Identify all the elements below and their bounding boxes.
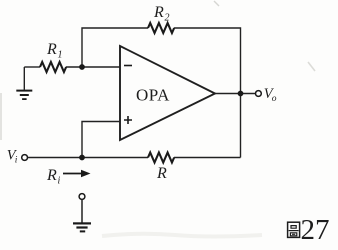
wire: Vi to R (bottom rail) bbox=[28, 157, 149, 159]
wire: top feedback rail left segment bbox=[82, 28, 148, 67]
svg-text:i: i bbox=[15, 156, 18, 166]
wire: top feedback rail right segment + right vertical bbox=[174, 28, 241, 158]
svg-text:27: 27 bbox=[301, 214, 330, 246]
svg-text:R: R bbox=[156, 165, 167, 182]
svg-text:2: 2 bbox=[165, 13, 170, 24]
node: output junction bbox=[238, 91, 244, 97]
wire: R1 to inverting input bbox=[66, 66, 120, 68]
label Vi bbox=[7, 148, 18, 166]
wire: non-inverting input branch bbox=[82, 122, 120, 158]
svg-text:1: 1 bbox=[58, 50, 63, 61]
svg-text:R: R bbox=[153, 4, 164, 21]
pin - (inverting) bbox=[124, 65, 132, 67]
terminal Vi bbox=[22, 155, 28, 161]
label Ri bbox=[46, 167, 61, 187]
svg-text:R: R bbox=[46, 41, 57, 58]
node: junction at inverting input bbox=[79, 64, 85, 70]
svg-text:o: o bbox=[272, 94, 277, 104]
caption 圖27 bbox=[288, 214, 330, 246]
ground (left, at R1 input) bbox=[16, 67, 32, 100]
resistor R2 bbox=[148, 23, 174, 33]
op-amp U1 (OPA) bbox=[120, 46, 215, 140]
terminal Vo bbox=[256, 91, 262, 97]
label R2 bbox=[153, 4, 170, 24]
resistor R1 bbox=[40, 62, 66, 72]
node: junction at Vi branch bbox=[79, 155, 85, 161]
glyph 圖 (drawn) bbox=[288, 222, 300, 237]
svg-text:R: R bbox=[46, 167, 57, 184]
label R1 bbox=[46, 41, 63, 61]
wire: ground to R1 bbox=[24, 66, 40, 68]
label Vo bbox=[264, 86, 277, 104]
wire: op-amp output bbox=[215, 93, 256, 95]
arrow (input current direction) bbox=[63, 170, 91, 178]
svg-text:i: i bbox=[58, 176, 61, 187]
pin + (non-inverting) bbox=[124, 116, 132, 124]
terminal: ground stub circle bbox=[79, 194, 85, 200]
svg-text:OPA: OPA bbox=[136, 86, 170, 105]
wire: R to right vertical bbox=[174, 157, 241, 159]
resistor R bbox=[148, 153, 174, 163]
ground (bottom) bbox=[73, 200, 91, 233]
